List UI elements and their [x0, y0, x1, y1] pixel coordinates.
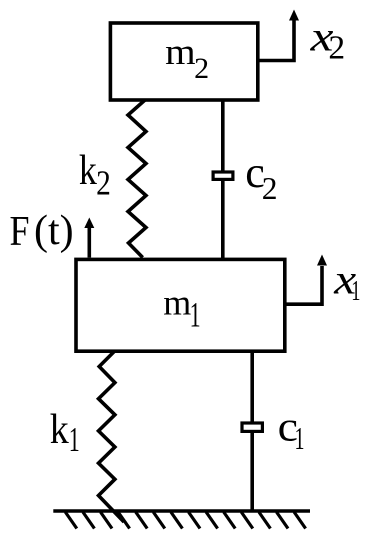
- displacement x1 arrowhead: [317, 255, 327, 266]
- svg-text:1: 1: [295, 421, 305, 456]
- damper c1 rod upper: [250, 351, 254, 423]
- damper c1 body: [240, 421, 264, 433]
- mass m2 box: [110, 23, 257, 100]
- svg-text:2: 2: [328, 29, 345, 66]
- force F(t) arrowhead: [84, 218, 94, 229]
- svg-text:1: 1: [69, 420, 80, 459]
- ground line: [53, 509, 310, 513]
- damper c2 rod lower: [221, 181, 225, 259]
- damper c2 body: [212, 170, 235, 181]
- svg-text:2: 2: [194, 52, 209, 85]
- displacement x2 arrowhead: [289, 10, 299, 21]
- svg-text:(t): (t): [34, 208, 74, 254]
- damper c1 rod lower: [250, 433, 254, 511]
- spring k2: [128, 100, 146, 258]
- svg-text:1: 1: [190, 294, 201, 334]
- svg-text:F: F: [10, 209, 30, 255]
- svg-text:k: k: [50, 407, 69, 453]
- svg-text:m: m: [165, 32, 196, 73]
- force F(t) arrow stem: [88, 226, 92, 258]
- displacement x1 connector: [284, 266, 322, 304]
- svg-text:2: 2: [96, 165, 111, 203]
- svg-text:m: m: [163, 282, 191, 322]
- damper c2 rod upper: [221, 99, 225, 172]
- ground hatching: [65, 512, 305, 529]
- mass m1 box: [76, 259, 285, 351]
- svg-text:k: k: [79, 148, 97, 194]
- displacement x2 connector: [257, 20, 294, 61]
- spring k1: [99, 351, 125, 522]
- svg-text:1: 1: [351, 275, 360, 307]
- svg-text:2: 2: [262, 171, 278, 206]
